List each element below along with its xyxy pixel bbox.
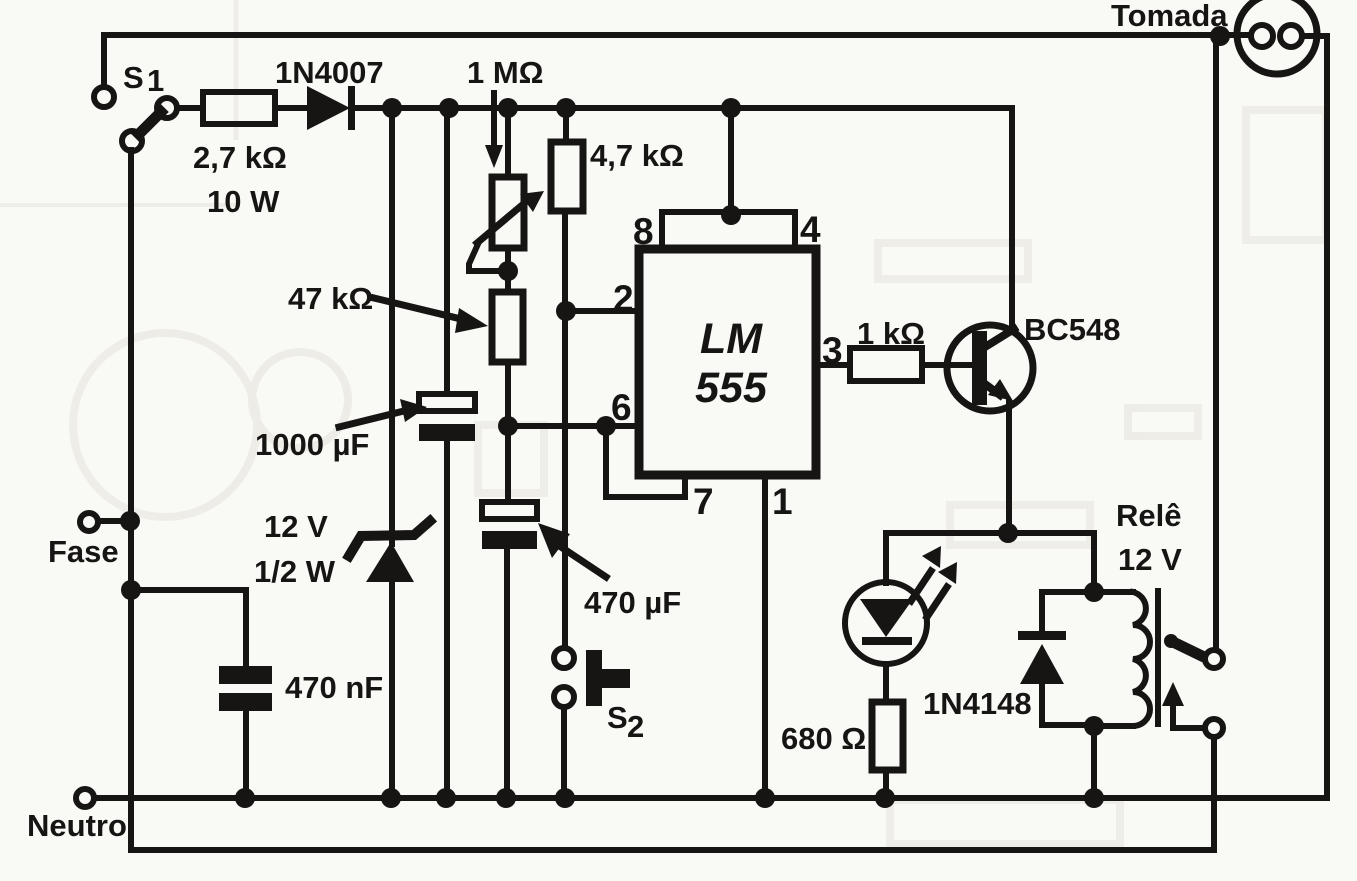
wire: pin 1 to neutro rail [762, 475, 768, 798]
label arrow for 470uF [538, 523, 606, 577]
svg-text:1000 µF: 1000 µF [255, 427, 369, 462]
switch S1 lever [139, 112, 161, 134]
wire: R5 to neutro rail [883, 770, 889, 798]
pins 8-4 bridge [662, 212, 795, 250]
neutro terminal [76, 789, 94, 807]
wire: diode bracket [1042, 592, 1094, 725]
svg-text:S: S [607, 700, 628, 735]
wire: pin 2 [566, 308, 639, 314]
wire: S1 to R1 [177, 105, 203, 111]
svg-text:12 V: 12 V [1118, 542, 1182, 577]
svg-text:4: 4 [800, 209, 821, 250]
svg-text:1 kΩ: 1 kΩ [857, 316, 925, 351]
wire: LED drop [883, 533, 889, 583]
diode D1 1N4007 [307, 86, 355, 130]
zener cathode bar [349, 521, 430, 556]
wire: pot to R3 [505, 248, 511, 292]
node: neutro-C2 [496, 788, 516, 808]
wire: top rail from S1 riser to socket [104, 32, 1251, 38]
wire: collector drop from rail [1009, 108, 1015, 332]
relay core line [1155, 591, 1161, 724]
wire: main DC rail y=108 [354, 105, 1012, 111]
wire: zener to neutro rail [389, 582, 395, 798]
potentiometer wiper arrow [477, 191, 544, 243]
switch S1 open terminal [94, 87, 114, 107]
node: pot wiper [498, 261, 518, 281]
switch S2 button [586, 650, 630, 706]
node: coil top [1084, 582, 1104, 602]
potentiometer wiper return [469, 244, 508, 271]
socket Tomada outer circle [1237, 0, 1317, 74]
node: neutro-C1 [436, 788, 456, 808]
resistor R2 4,7k body [551, 142, 583, 211]
wire: fase terminal link [98, 518, 131, 524]
svg-text:47 kΩ: 47 kΩ [288, 281, 373, 316]
LED triangle [860, 599, 913, 637]
wire: rail to potentiometer [505, 108, 511, 177]
node: rail-zener [382, 98, 402, 118]
wire: S1 riser [101, 35, 107, 88]
switch S2 lower terminal [554, 687, 574, 707]
resistor R5 680 ohm body [872, 702, 903, 770]
relay moving contact terminal [1205, 719, 1223, 737]
capacitor C3 470nF bottom plate [219, 693, 272, 711]
wire: R4 to base [922, 362, 970, 368]
fase terminal [80, 513, 98, 531]
wire: rail to R2 [563, 108, 569, 142]
capacitor C3 470nF top plate [219, 666, 272, 684]
wire: neutro rail [94, 795, 1327, 801]
LED circle [845, 582, 927, 664]
svg-text:2: 2 [613, 278, 634, 319]
wire: pin 3 to R4 [816, 362, 850, 368]
relay actuation arrow [1162, 682, 1205, 728]
capacitor C2 470uF bottom plate [482, 531, 537, 549]
svg-text:BC548: BC548 [1024, 312, 1121, 347]
zener diode DZ 12V body [366, 542, 414, 582]
node: neutro-S2 [555, 788, 575, 808]
wire: C1 branch upper [444, 108, 450, 394]
node: neutro-pin1 [755, 788, 775, 808]
switch S2 upper terminal [554, 648, 574, 668]
svg-text:Fase: Fase [48, 534, 119, 569]
socket pin left [1251, 25, 1273, 47]
wire: coil top link [1094, 589, 1133, 595]
LED light arrow 1 [911, 546, 941, 601]
svg-text:1: 1 [147, 63, 164, 98]
svg-text:1: 1 [772, 481, 793, 522]
wire: C3 to neutro rail [243, 711, 249, 798]
switch S1 lower terminal [122, 131, 142, 151]
relay NO contact [1205, 650, 1223, 668]
wire: left fase drop from S1 [128, 150, 134, 850]
svg-text:2,7 kΩ: 2,7 kΩ [193, 140, 287, 175]
wire: coil to neutro rail [1091, 726, 1097, 798]
svg-text:470 µF: 470 µF [584, 585, 681, 620]
svg-text:LM: LM [700, 315, 763, 363]
node: neutro-relay [1084, 788, 1104, 808]
capacitor C1 1000uF bottom plate [419, 424, 475, 441]
label arrow for 47k [374, 298, 488, 333]
svg-text:6: 6 [611, 387, 632, 428]
wire: S2 to neutro rail [561, 707, 567, 798]
resistor R4 1k body [850, 348, 922, 381]
capacitor C1 1000uF top plate [419, 394, 475, 411]
node: pin2-R2 [556, 301, 576, 321]
wire: pin 7 bracket to pin 6 node [606, 426, 685, 497]
svg-text:Tomada: Tomada [1111, 0, 1228, 33]
op-amp U1 LM555 body [639, 249, 816, 475]
svg-text:555: 555 [695, 364, 768, 412]
LED light arrow 2 [927, 562, 957, 617]
svg-text:680 Ω: 680 Ω [781, 721, 866, 756]
transistor Q1 collector stroke [985, 329, 1014, 347]
svg-text:7: 7 [693, 481, 714, 522]
wire: relay feed down [1091, 533, 1097, 592]
resistor R1 2,7 kOhm body [203, 92, 275, 124]
wire: zener branch upper [389, 108, 395, 544]
wire: R2 down to S2 [562, 211, 568, 648]
svg-text:10 W: 10 W [207, 184, 280, 219]
wire: pin 6 [508, 423, 639, 429]
node: rail-pot [498, 98, 518, 118]
label arrow for 1000uF [339, 399, 427, 427]
node: pin6 left [498, 416, 518, 436]
transistor Q1 BC548 circle [947, 325, 1033, 411]
transistor Q1 emitter arrowhead [988, 379, 1013, 401]
resistor R3 47k body [492, 292, 523, 362]
wire: coil bottom link [1094, 723, 1133, 729]
wire: branch to C3 [131, 590, 246, 666]
node: fase-C3 [121, 580, 141, 600]
switch S1 pole terminal [157, 98, 177, 118]
node: rail-R2 [556, 98, 576, 118]
svg-text:3: 3 [822, 330, 843, 371]
wire: C1 to neutro rail [444, 441, 450, 798]
svg-text:1N4148: 1N4148 [923, 686, 1032, 721]
svg-text:S: S [123, 60, 144, 95]
potentiometer P1 1M body [492, 177, 524, 248]
socket pin right [1280, 25, 1302, 47]
node: neutro-zener [381, 788, 401, 808]
node: neutro-C3 [235, 788, 255, 808]
svg-text:1/2 W: 1/2 W [254, 554, 336, 589]
node: top rail socket [1210, 26, 1230, 46]
svg-text:2: 2 [627, 709, 644, 744]
wire: emitter node horizontal [886, 530, 1094, 536]
svg-text:1 MΩ: 1 MΩ [467, 55, 544, 90]
svg-text:Neutro: Neutro [27, 808, 127, 843]
wire: C2 to neutro rail [504, 549, 510, 798]
svg-text:470 nF: 470 nF [285, 670, 383, 705]
svg-text:4,7 kΩ: 4,7 kΩ [590, 138, 684, 173]
capacitor C2 470uF top plate [482, 502, 537, 519]
wire: R1 to D1 [275, 105, 307, 111]
node: emitter-relay [998, 523, 1018, 543]
LED cathode bar [862, 637, 912, 645]
wire: contact to bottom fase line [1211, 737, 1217, 850]
node: fase tap [120, 511, 140, 531]
relay K1 coil arcs [1133, 592, 1150, 726]
wire: right edge riser to socket [1302, 36, 1327, 798]
transistor Q1 emitter stroke [985, 384, 1000, 395]
node: coil bottom [1084, 716, 1104, 736]
node: rail-bridge [721, 98, 741, 118]
wire: NO contact riser to top node [1213, 35, 1219, 650]
svg-text:1N4007: 1N4007 [275, 55, 384, 90]
svg-text:8: 8 [633, 211, 654, 252]
wire: emitter down [1006, 402, 1012, 533]
node: rail-C1 [439, 98, 459, 118]
svg-text:12 V: 12 V [264, 509, 328, 544]
wire: LED to R5 [883, 664, 889, 702]
wire: rail to pins 8-4 bridge [728, 108, 734, 214]
wire: R3 to pin6 node [505, 362, 511, 502]
diode D2 1N4148 [1018, 631, 1066, 684]
svg-text:Relê: Relê [1116, 498, 1181, 533]
node: neutro-R5 [875, 788, 895, 808]
label arrow for 1M pot [485, 93, 503, 168]
transistor Q1 base bar [972, 331, 987, 405]
node: pin6-pin7 [596, 416, 616, 436]
wire: bottom fase line [131, 847, 1214, 853]
relay lever [1171, 641, 1204, 657]
node: bridge top [721, 205, 741, 225]
